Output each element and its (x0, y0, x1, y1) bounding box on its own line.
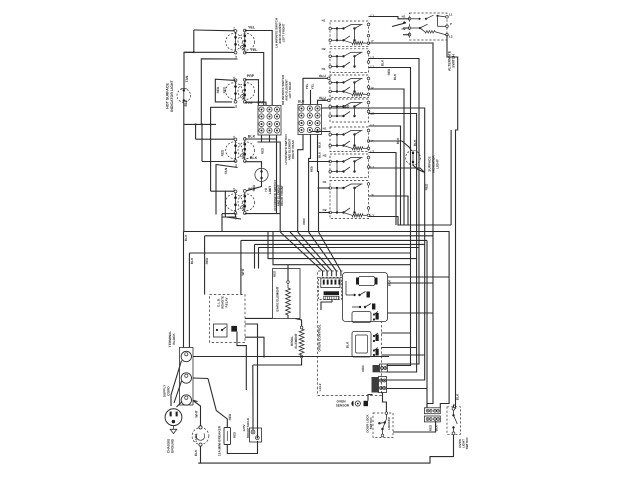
svg-text:BLK: BLK (456, 393, 460, 400)
svg-text:BLU: BLU (319, 74, 326, 78)
wire to DLB relay (204, 236, 206, 295)
relay D.L.B. remote relay (210, 295, 246, 343)
svg-text:BAKE ELEMENT: BAKE ELEMENT (276, 286, 280, 311)
wire S4 return (222, 213, 236, 215)
connector P3 (372, 377, 387, 393)
svg-text:LIGHT: LIGHT (436, 159, 440, 169)
svg-text:H1: H1 (402, 15, 406, 19)
wire P2 run (369, 89, 405, 225)
svg-text:YEL: YEL (305, 83, 309, 89)
wire to receptacle (257, 330, 259, 438)
wire to oven light switch (447, 35, 458, 409)
wire pointer to alternate switch (392, 23, 406, 27)
wire BLU (303, 78, 329, 104)
wire breaker to receptacle (227, 441, 257, 454)
wire YEL lower to terminal block (245, 53, 264, 106)
svg-text:H2: H2 (323, 208, 327, 212)
wire bus (259, 248, 420, 365)
svg-text:01: 01 (232, 187, 236, 191)
wire TB2 drop (318, 135, 319, 233)
wire (426, 240, 428, 407)
infinite switch S2 left rear (226, 76, 255, 108)
wire (369, 196, 409, 225)
switch section LF H1 (329, 21, 370, 46)
svg-text:WHT: WHT (194, 410, 198, 417)
svg-text:PRP: PRP (257, 101, 264, 105)
supply cord wire 3 (177, 402, 183, 408)
svg-text:LEFT REAR: LEFT REAR (288, 81, 292, 99)
wire (319, 212, 331, 214)
svg-text:BLU: BLU (318, 142, 322, 148)
wire TB1 drop (261, 135, 263, 142)
wire (382, 332, 411, 334)
wire L2 run 2 (369, 114, 417, 373)
svg-text:RED: RED (361, 365, 365, 372)
wire (369, 126, 401, 225)
svg-text:15A MINI-BREAKER: 15A MINI-BREAKER (218, 425, 222, 456)
svg-text:RED: RED (272, 270, 276, 277)
junction (193, 51, 195, 53)
wire stub (326, 271, 328, 276)
wire (287, 315, 289, 318)
wire 2B return S1 (201, 59, 237, 125)
wire (193, 400, 198, 401)
svg-text:RED: RED (387, 68, 391, 75)
svg-text:OVEN CONTROL: OVEN CONTROL (318, 324, 322, 351)
wire sensor to control (368, 395, 373, 401)
wire (221, 214, 223, 232)
wire broil bottom (253, 358, 302, 365)
svg-text:SWITCH: SWITCH (452, 54, 456, 68)
svg-text:RECEPTACLE: RECEPTACLE (246, 418, 250, 438)
wire (210, 124, 212, 191)
wire WHT (240, 240, 242, 294)
svg-text:LEFT FRONT: LEFT FRONT (282, 24, 286, 43)
wire (387, 388, 428, 390)
svg-text:RELAY: RELAY (225, 298, 229, 308)
wire (450, 130, 452, 225)
wire (321, 302, 332, 310)
wire PRP (245, 80, 259, 106)
svg-text:P: P (372, 39, 374, 43)
svg-text:RED: RED (429, 424, 433, 431)
heating element bake element (273, 269, 301, 319)
svg-text:RED: RED (310, 166, 314, 172)
ground chassis ground (170, 426, 177, 434)
svg-text:BLK: BLK (413, 139, 417, 146)
terminal (328, 77, 331, 80)
svg-text:H2: H2 (323, 154, 327, 158)
connector P2 (373, 364, 388, 372)
svg-text:L1/L2: L1/L2 (318, 383, 322, 391)
wire left bus (188, 253, 190, 348)
svg-text:01: 01 (232, 76, 236, 80)
connector ERC plug P1 (319, 278, 342, 300)
junction (201, 123, 203, 125)
wire control feed 1 (280, 232, 322, 271)
svg-text:BLU: BLU (298, 100, 305, 104)
wire (201, 124, 203, 161)
svg-text:LOCKED: LOCKED (387, 416, 391, 430)
wire bus right (369, 217, 452, 226)
wire broil top (295, 319, 302, 327)
connector P4 (424, 408, 440, 414)
wire BLK to surface light (369, 141, 412, 150)
wire RED long (322, 108, 425, 173)
wire control feed 3 (298, 232, 332, 271)
svg-text:YEL: YEL (311, 83, 315, 89)
svg-text:L1: L1 (449, 13, 453, 17)
arrowhead (403, 21, 406, 23)
wire feed 6 (268, 232, 417, 259)
svg-text:BLK: BLK (396, 137, 400, 144)
infinite switch S1 left front (226, 27, 255, 59)
wire (254, 244, 256, 268)
wire (311, 131, 331, 133)
svg-text:H2: H2 (322, 98, 326, 102)
wire left edge (183, 232, 185, 348)
wire S2 feed loop (215, 79, 235, 102)
wire (198, 462, 200, 464)
wire TB1 loop down (258, 142, 281, 232)
wire (245, 317, 273, 319)
thermostat hi-limit (255, 168, 268, 181)
svg-text:BLK: BLK (184, 234, 188, 241)
plug grounding plug (165, 409, 182, 426)
wire bus (255, 243, 425, 245)
wire N from TB (193, 377, 208, 380)
wire to indicator light (184, 52, 194, 88)
svg-text:BLU: BLU (318, 152, 322, 158)
wire control feed 4 (309, 232, 337, 271)
svg-text:ELEMENT: ELEMENT (294, 333, 298, 348)
svg-text:SENSOR: SENSOR (336, 404, 350, 408)
wire door lock return (393, 421, 436, 432)
svg-text:PRP: PRP (247, 74, 255, 78)
wire jog (454, 405, 456, 407)
wire (382, 347, 417, 349)
wire bottom return BLK (198, 435, 453, 463)
wire (369, 168, 425, 173)
wire to alternate switch H2 (403, 27, 410, 29)
svg-text:RIGHT REAR: RIGHT REAR (291, 139, 295, 159)
connector P5 (424, 416, 440, 422)
supply cord wire 2 (174, 381, 182, 403)
svg-text:L2: L2 (449, 35, 453, 39)
wire bus (205, 235, 433, 237)
svg-text:BLK: BLK (190, 257, 194, 264)
svg-text:BLK: BLK (346, 341, 350, 348)
svg-text:RED: RED (216, 86, 220, 93)
wire TB1 drop (269, 135, 271, 142)
svg-text:YEL: YEL (251, 48, 259, 52)
switch oven light switch (447, 407, 461, 435)
wire YEL to terminal block (245, 31, 272, 106)
svg-text:BLK: BLK (194, 449, 198, 456)
wire net L1 top (194, 29, 236, 32)
wire (245, 324, 258, 330)
receptacle 120V receptacle (250, 428, 262, 442)
wire (309, 161, 330, 163)
wire feed 7 (273, 232, 411, 265)
wire (202, 161, 222, 163)
svg-text:BLK: BLK (184, 99, 188, 107)
wire left bus down (183, 124, 185, 231)
svg-text:LAMP: LAMP (194, 434, 198, 443)
wire indicator to bus (183, 102, 185, 124)
svg-text:H2: H2 (322, 47, 326, 51)
wire TB1 drop (276, 135, 278, 214)
infinite switch S4 right rear (226, 187, 255, 219)
wire (195, 124, 197, 139)
svg-text:BLK: BLK (250, 156, 258, 160)
wire stub (403, 34, 410, 36)
svg-text:RED: RED (228, 413, 232, 420)
svg-text:RED: RED (252, 184, 256, 191)
wire to switch S3 (196, 138, 237, 140)
wire stub (340, 271, 342, 276)
wire BLK (245, 135, 277, 139)
wire to receptacle (252, 365, 254, 430)
infinite switch S3 right front (226, 135, 255, 167)
wire (264, 356, 389, 358)
wire to connector (427, 236, 433, 408)
terminal block supply TB (180, 348, 194, 406)
wire bus (189, 252, 410, 254)
wire stub (331, 271, 333, 276)
wire (258, 248, 260, 269)
svg-text:01: 01 (232, 135, 236, 139)
wire L1 run (369, 68, 411, 254)
wire L1 from TB (193, 356, 264, 358)
supply cord wire 1 (171, 361, 182, 407)
wire PRP to TB (245, 102, 266, 105)
component clock heater element (324, 291, 339, 299)
wire (245, 337, 264, 356)
module oven control outline (318, 271, 382, 396)
heating element broil element (299, 326, 304, 358)
wire S4 left loop (225, 191, 235, 217)
wire hi-limit to S4 (246, 181, 261, 190)
wire BLK to hi-limit (245, 162, 262, 168)
svg-text:BLK: BLK (248, 134, 256, 138)
junction (210, 123, 212, 125)
svg-text:BLK: BLK (381, 59, 385, 66)
wire stub (322, 271, 324, 276)
svg-text:H1: H1 (323, 127, 327, 131)
wire (331, 300, 333, 302)
switch section RF (329, 181, 370, 219)
svg-text:H1: H1 (323, 180, 327, 184)
wire from light (413, 165, 425, 173)
switch section RR H1 (329, 127, 370, 152)
junction (195, 123, 197, 125)
svg-text:02: 02 (234, 55, 238, 59)
indicator lamp DS2 surface indicator light (406, 150, 421, 165)
wire bus (241, 239, 427, 241)
wire to door lock (383, 393, 387, 412)
wire down to connector (387, 173, 425, 381)
wire S2 return (211, 107, 235, 124)
terminal block TB2 surface elements right (298, 105, 322, 135)
wire (388, 312, 434, 314)
svg-text:RED: RED (261, 147, 265, 154)
svg-text:YEL: YEL (248, 26, 256, 30)
sensor oven sensor (351, 401, 368, 406)
wire TB2 drop (309, 135, 311, 233)
wire (388, 276, 450, 278)
svg-text:BLOCK: BLOCK (172, 333, 176, 345)
wire (388, 282, 434, 284)
wire L1 to alternate switch (369, 17, 410, 19)
svg-text:RED: RED (205, 257, 209, 264)
wire control feed 5 (319, 232, 341, 271)
wire 2B return S4 (222, 217, 241, 219)
svg-text:LIMIT: LIMIT (268, 186, 272, 194)
svg-text:RED: RED (233, 431, 237, 438)
indicator lamp DS1 hot surface indicator light (177, 89, 191, 103)
lamp oven lamp (192, 426, 209, 446)
svg-text:RED: RED (302, 218, 306, 225)
wire BLU lower (318, 100, 329, 104)
svg-text:CORD: CORD (167, 386, 171, 396)
svg-text:SWITCH: SWITCH (465, 438, 469, 450)
relay K1 (352, 312, 379, 323)
svg-text:BLK: BLK (435, 424, 439, 431)
svg-text:P: P (450, 22, 452, 26)
svg-text:RED: RED (221, 149, 225, 156)
wire WHT to lamp (193, 401, 201, 426)
wire to lower section (245, 213, 280, 215)
wire TB2 drop (298, 135, 303, 233)
wire (237, 332, 246, 390)
wire RED to breaker (208, 379, 227, 428)
wire P run down right (369, 43, 434, 236)
wire YEL (310, 90, 312, 105)
svg-text:GROUND: GROUND (171, 438, 175, 453)
terminal (328, 99, 331, 102)
wire to switch S4 (211, 190, 237, 192)
switch door lock (373, 412, 393, 438)
relay K2 (352, 332, 379, 358)
switch section LF H2 (329, 49, 370, 73)
wire (287, 265, 289, 281)
wire stub (335, 271, 337, 276)
wire control feed 2 (290, 232, 327, 271)
svg-text:PRP: PRP (246, 101, 254, 105)
wire L2 run (369, 59, 420, 248)
wire to switch S1 (184, 51, 236, 53)
wire (369, 153, 397, 226)
svg-text:RED: RED (223, 86, 227, 93)
svg-text:01: 01 (232, 27, 236, 31)
svg-text:INDICATOR LIGHT: INDICATOR LIGHT (170, 79, 174, 111)
breaker 15A mini-breaker (224, 428, 231, 445)
svg-text:TAN: TAN (224, 167, 228, 174)
switch section RR H2 (329, 154, 370, 178)
svg-text:H1: H1 (322, 19, 326, 23)
switch section LR H2 (329, 99, 370, 122)
wire BLK from lamp (200, 446, 202, 463)
wire (222, 160, 236, 162)
svg-text:WHT: WHT (241, 268, 245, 275)
wire (382, 354, 425, 356)
wire 2B return S3 (216, 165, 238, 215)
junction (263, 356, 265, 358)
svg-text:TAN: TAN (185, 75, 189, 82)
wire (193, 30, 195, 52)
wire left bus (184, 123, 216, 125)
wire to connector (387, 253, 411, 366)
switch alternate switch (408, 13, 448, 40)
svg-text:L2: L2 (371, 214, 375, 218)
svg-text:SWITCH: SWITCH (369, 418, 373, 430)
module oven control relay board (343, 273, 388, 322)
terminal block TB1 surface elements left (258, 106, 281, 136)
svg-text:BLK: BLK (393, 73, 397, 80)
wire oven feed L1 (184, 232, 450, 408)
switch section LR H1 (329, 75, 370, 98)
svg-text:H1: H1 (322, 67, 326, 71)
wire (318, 187, 331, 189)
